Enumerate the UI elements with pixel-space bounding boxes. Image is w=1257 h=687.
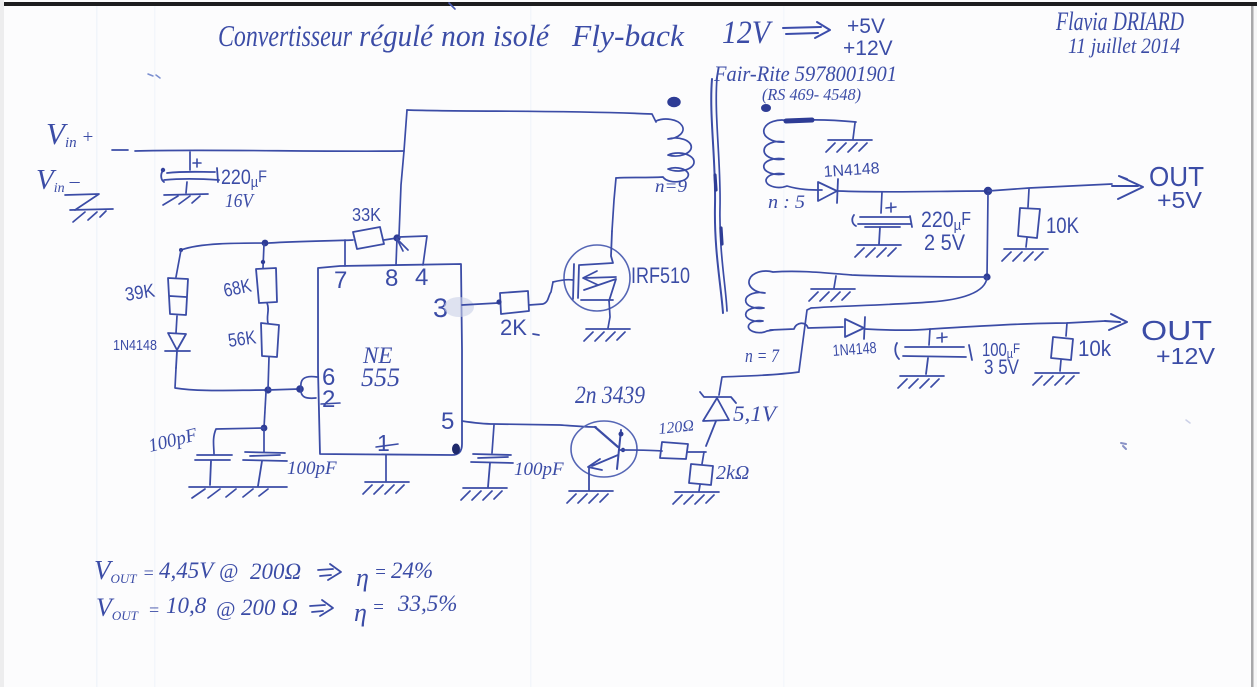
wire primary bottom to drain: [612, 178, 616, 231]
svg-text:3 5V: 3 5V: [984, 356, 1019, 379]
plus sign of C 220uF: [193, 159, 201, 167]
resistor 33K: [353, 227, 384, 249]
ground Vin-: [65, 194, 113, 222]
capacitor C 100pF (middle): [243, 452, 287, 486]
ground 2N3439 emitter: [567, 491, 613, 503]
svg-text:+5V: +5V: [847, 15, 885, 38]
svg-text:η: η: [354, 598, 367, 627]
wire 120R to zener/2k junction: [688, 451, 706, 453]
wire pin8 node to pin 4: [399, 236, 427, 265]
top wire to transformer primary: [407, 110, 656, 122]
phase dot secondary n=5: [761, 104, 771, 112]
ground 10K (+5V): [1002, 249, 1048, 261]
ground of 100uF 35V: [898, 376, 944, 388]
svg-text:OUT: OUT: [1141, 315, 1212, 346]
winding primary n=9: [616, 119, 694, 182]
transformer core line right: [716, 78, 727, 311]
zener diode 5.1V: [700, 392, 736, 446]
stem to ground: [699, 485, 700, 491]
junction n=7 top node: [983, 273, 990, 280]
base lead diagonal: [595, 427, 618, 447]
svg-text:η: η: [356, 563, 369, 592]
capacitor C 220uF 16V plates: [161, 168, 219, 182]
svg-text:n : 5: n : 5: [768, 192, 805, 213]
svg-text:(RS 469- 4548): (RS 469- 4548): [762, 85, 861, 104]
ground of pin5 cap: [461, 488, 507, 500]
svg-text:Fly-back: Fly-back: [571, 18, 685, 53]
stem to ground: [1026, 238, 1027, 247]
stray pen tick top: [449, 3, 455, 9]
transformer core line left: [711, 79, 723, 313]
svg-text:5: 5: [441, 408, 454, 435]
ground of 220uF 25V: [855, 245, 901, 257]
transistor Q IRF510 circle: [564, 245, 630, 311]
source structure: [581, 279, 616, 301]
svg-text:1N4148: 1N4148: [832, 340, 877, 360]
transistor Q 2N3439 circle: [571, 421, 637, 477]
diode D 1N4148 (left): [165, 333, 190, 368]
svg-text:+12V: +12V: [843, 37, 893, 60]
stray speck right: [1121, 443, 1126, 449]
resistor 10k (+12V) stem: [1066, 323, 1067, 336]
svg-text:n=9: n=9: [655, 176, 687, 196]
svg-text:24%: 24%: [391, 558, 433, 583]
wire node to 555 pins 2/6: [268, 389, 299, 390]
svg-text:2kΩ: 2kΩ: [716, 462, 749, 484]
wire pin 3 to 2K: [462, 303, 498, 305]
resistor 56K: [261, 323, 279, 357]
svg-text:2K: 2K: [500, 315, 527, 340]
capacitor C 100uF 35V stem: [929, 329, 930, 345]
wire to left 100pF: [214, 428, 265, 454]
svg-text:Flavia DRIARD: Flavia DRIARD: [1055, 7, 1184, 36]
svg-text:7: 7: [334, 267, 347, 294]
arrow head OUT +12V: [1105, 314, 1127, 330]
svg-text:555: 555: [361, 363, 400, 392]
resistor 68K: [256, 268, 277, 303]
svg-text:10k: 10k: [1078, 336, 1112, 361]
node wire upper bias rail: [181, 240, 353, 250]
svg-text:100pF: 100pF: [287, 458, 337, 479]
ground of C 220uF 16V: [163, 194, 208, 205]
winding secondary n=7: [746, 271, 985, 333]
wire n=7 bottom with hop: [770, 323, 843, 330]
wire pin 7 stub: [344, 240, 346, 266]
stray pen mark: [148, 74, 160, 78]
stem to ground: [1060, 360, 1061, 371]
wire 39K to diode: [176, 316, 177, 333]
wire pin8 node down to pin 8: [396, 238, 397, 265]
plus sign: [937, 333, 947, 342]
resistor 39K: [168, 278, 188, 315]
wire to zener top: [719, 372, 799, 395]
core ink blobs: [715, 175, 722, 244]
junction +5V node: [984, 187, 992, 195]
capacitor C 100pF (pin5) plates: [471, 454, 513, 487]
stem to ground: [186, 182, 187, 193]
wire diode down to bottom node rail: [175, 368, 268, 391]
svg-text:1N4148: 1N4148: [113, 337, 157, 354]
ground n=7 top: [809, 289, 855, 301]
capacitor C 100uF 35V plates: [895, 343, 972, 374]
wire diode to +12V rail: [865, 321, 1105, 330]
svg-text:+12V: +12V: [1156, 343, 1216, 369]
svg-text:@: @: [216, 597, 235, 621]
ground stem n=5 top: [853, 123, 855, 139]
svg-text:11 juillet 2014: 11 juillet 2014: [1068, 33, 1180, 58]
svg-text:200 Ω: 200 Ω: [241, 595, 298, 620]
resistor 2kR: [689, 464, 713, 485]
svg-text:200Ω: 200Ω: [250, 559, 301, 584]
wire top node to 68K: [263, 244, 264, 268]
capacitor C 100pF (left): [195, 455, 232, 485]
collector lead to 120R: [620, 450, 662, 451]
wire node down to right 100pF: [263, 430, 265, 452]
ground 10k (+12V): [1033, 373, 1079, 385]
svg-text:2: 2: [322, 386, 335, 413]
resistor 10K (+5V): [1018, 208, 1040, 238]
svg-text:100pF: 100pF: [514, 459, 564, 480]
svg-text:4: 4: [415, 264, 428, 291]
ground stem n=7 top: [834, 276, 836, 288]
ground IRF510 source: [584, 329, 630, 341]
ink blob bottom-right corner of NE555: [452, 444, 460, 455]
wire +5V node down to n=7 node: [987, 194, 988, 277]
svg-text:10,8: 10,8: [166, 593, 207, 618]
wire +5V node to 10K and arrow: [988, 184, 1112, 191]
svg-text:non isolé: non isolé: [441, 18, 550, 53]
gate bars: [573, 264, 579, 299]
ground pin 1: [363, 482, 409, 494]
source lead to ground: [608, 300, 610, 328]
capacitor C 220uF 25V plates: [852, 215, 912, 244]
junction node pins 2-6 rail: [264, 386, 271, 393]
wire 68K to 56K: [267, 303, 268, 323]
wire node down to timing caps: [264, 392, 266, 428]
svg-text:@: @: [219, 559, 238, 583]
svg-text:56K: 56K: [227, 327, 258, 352]
arrow head OUT +5V: [1112, 176, 1143, 199]
svg-text:33K: 33K: [352, 205, 381, 225]
resistor 10k (+12V): [1051, 337, 1073, 360]
svg-text:IRF510: IRF510: [631, 263, 690, 288]
diode D 1N4148 (+12V): [845, 317, 865, 339]
pin 1 stub wire: [385, 455, 387, 481]
ground n=5 top: [826, 140, 872, 152]
plus sign: [886, 203, 896, 212]
capacitor C 100pF (pin5) stem: [492, 425, 494, 453]
svg-text:1: 1: [377, 430, 390, 456]
svg-text:2n 3439: 2n 3439: [575, 382, 645, 409]
wire pin 5: [462, 421, 596, 427]
svg-text:n = 7: n = 7: [745, 346, 780, 367]
resistor 10K (+5V) stem: [1028, 189, 1029, 207]
ground 2kR: [673, 492, 719, 504]
bracket joining pins 6 and 2: [301, 377, 317, 399]
svg-text:Convertisseur: Convertisseur: [218, 18, 353, 53]
svg-text:4,45V: 4,45V: [159, 558, 216, 583]
svg-text:16V: 16V: [225, 190, 255, 212]
svg-text:12V: 12V: [722, 15, 773, 51]
wire feedback from n=7 node down-left: [799, 277, 987, 371]
resistor 2K gate: [500, 291, 529, 314]
faint scanner streaks: [96, 6, 98, 687]
capacitor C 220uF 25V stem: [881, 192, 882, 213]
wire Vin+ rail: [112, 150, 404, 151]
main vertical wire from top rail to pin 8 node: [399, 110, 407, 236]
emitter lead with arrow: [588, 455, 618, 490]
ink blob on n=5 top wire: [786, 120, 812, 121]
svg-text:33,5%: 33,5%: [397, 591, 457, 616]
svg-text:2 5V: 2 5V: [924, 230, 965, 255]
arrow 12V to outputs: [783, 22, 830, 38]
drain bar and lead: [580, 231, 613, 265]
svg-text:8: 8: [385, 265, 398, 292]
wire 2K to gate: [529, 282, 553, 305]
svg-text:10K: 10K: [1046, 213, 1079, 238]
diode D 1N4148 (+5V): [818, 179, 838, 203]
junction pin8 node with arrow mark: [393, 234, 400, 241]
op IC NE555 body: [318, 264, 462, 455]
resistor 120R: [660, 442, 688, 459]
junction node 68K top: [262, 240, 269, 247]
body arrow: [583, 271, 616, 285]
wire 56K to bottom node: [268, 357, 269, 390]
svg-text:Fair-Rite 5978001901: Fair-Rite 5978001901: [713, 61, 897, 86]
base bar: [617, 430, 621, 469]
wire bias rail down-left to 39K: [176, 250, 181, 277]
svg-text:=: =: [374, 562, 387, 583]
phase dot primary: [668, 98, 680, 107]
winding secondary n=5: [764, 120, 856, 190]
wire diode to +5V node: [838, 190, 986, 193]
resistor 2kR stem: [702, 452, 704, 464]
smudge at pin 3: [444, 297, 474, 317]
capacitor C 220uF 16V stem: [189, 152, 191, 170]
wire 33K to pin8 node: [384, 238, 397, 240]
svg-text:régulé: régulé: [359, 18, 434, 53]
svg-text:5,1V: 5,1V: [733, 401, 779, 426]
shared ground of timing caps: [189, 487, 287, 498]
svg-text:=: =: [372, 597, 385, 618]
svg-text:+5V: +5V: [1157, 187, 1203, 213]
gate lead: [553, 280, 573, 282]
